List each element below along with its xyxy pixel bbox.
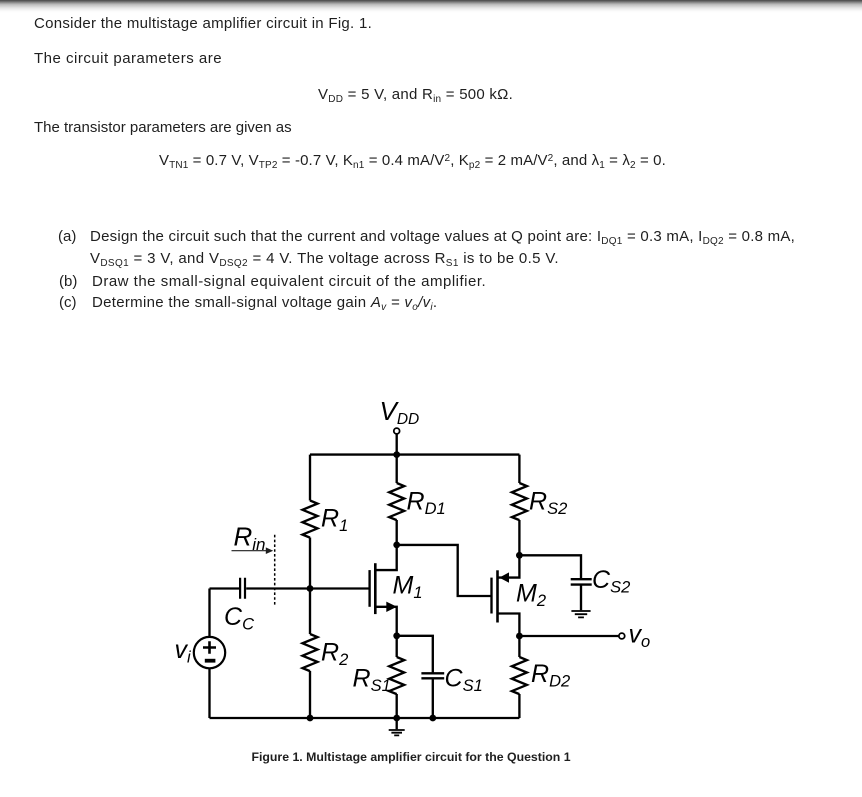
svg-text:Rin: Rin xyxy=(234,522,266,555)
svg-text:VDD: VDD xyxy=(380,396,420,428)
svg-text:M2: M2 xyxy=(516,580,546,611)
svg-text:RD2: RD2 xyxy=(531,660,570,691)
svg-text:CS2: CS2 xyxy=(592,566,630,597)
svg-text:RS1: RS1 xyxy=(353,665,391,696)
svg-text:R2: R2 xyxy=(321,639,348,670)
svg-text:CC: CC xyxy=(224,603,254,634)
svg-text:vi: vi xyxy=(175,636,193,667)
svg-text:vo: vo xyxy=(629,621,651,652)
svg-text:CS1: CS1 xyxy=(445,665,483,696)
svg-text:RD1: RD1 xyxy=(407,488,446,519)
svg-text:M1: M1 xyxy=(393,572,423,603)
svg-text:RS2: RS2 xyxy=(529,488,567,519)
svg-text:R1: R1 xyxy=(321,505,348,536)
